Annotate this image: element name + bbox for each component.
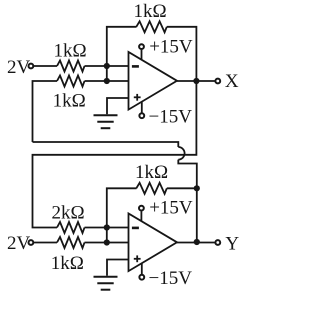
terminal: Y output bbox=[215, 240, 220, 245]
resistor 1kΩ feedback top bbox=[136, 21, 167, 32]
wire plus input to ground bbox=[107, 98, 129, 114]
node dot: top input junction upper bbox=[104, 63, 110, 69]
wire node vertical joining both input branches bbox=[106, 66, 108, 81]
wire -15V stem bbox=[141, 102, 143, 113]
svg-text:1kΩ: 1kΩ bbox=[51, 253, 84, 274]
terminal: -15V (bottom op-amp) bbox=[139, 275, 144, 280]
terminal: +15V (bottom op-amp) bbox=[139, 206, 144, 211]
resistor 2kΩ upper input branch bbox=[57, 222, 85, 233]
op-amp U2 plus sign bbox=[134, 258, 141, 260]
ground (top op-amp) bbox=[94, 115, 118, 128]
wire X node down to crossover bbox=[33, 81, 197, 228]
node dot: bottom input junction upper bbox=[104, 224, 110, 230]
terminal: +15V (top op-amp) bbox=[139, 44, 144, 49]
wire feedback right to output node bbox=[167, 27, 197, 81]
op-amp U2 triangle bbox=[129, 214, 178, 272]
node dot: Y output junction bbox=[194, 239, 200, 245]
svg-text:1kΩ: 1kΩ bbox=[53, 41, 86, 62]
svg-text:+15V: +15V bbox=[149, 36, 193, 57]
svg-text:2V: 2V bbox=[7, 233, 31, 254]
svg-text:2V: 2V bbox=[7, 57, 31, 78]
op-amp U2 minus sign bbox=[132, 227, 139, 230]
wire 2V terminal to resistor bbox=[34, 65, 57, 67]
wire plus input to ground bbox=[107, 260, 129, 276]
wire +15V stem bbox=[140, 211, 142, 221]
wire resistor to node (minus input line) bbox=[85, 65, 129, 67]
svg-text:1kΩ: 1kΩ bbox=[133, 1, 166, 22]
terminal: 2V input (top) bbox=[29, 64, 34, 69]
wire node vertical joining both input branches bbox=[106, 228, 108, 243]
svg-text:Y: Y bbox=[225, 233, 239, 254]
wire feedback left vertical bbox=[107, 27, 137, 66]
wire feedback right to Y vertical bbox=[167, 187, 197, 189]
node dot: bottom feedback junction bbox=[194, 185, 200, 191]
wire resistor to op-amp edge bbox=[85, 242, 129, 244]
terminal: X output bbox=[215, 79, 220, 84]
resistor 1kΩ lower input branch bbox=[57, 76, 85, 87]
wire output to Y terminal bbox=[177, 242, 215, 244]
svg-text:X: X bbox=[225, 71, 239, 92]
op-amp U1 minus sign bbox=[132, 65, 139, 68]
resistor 1kΩ lower input branch bbox=[57, 237, 85, 248]
node dot: bottom input junction lower bbox=[104, 239, 110, 245]
op-amp U1 triangle bbox=[129, 52, 178, 110]
wire resistor to op-amp edge bbox=[85, 80, 129, 82]
wire hop to Y output vertical bbox=[178, 160, 197, 242]
wire 2V terminal to resistor bbox=[34, 242, 57, 244]
op-amp U1 plus sign bbox=[134, 96, 141, 98]
wire -15V stem bbox=[141, 263, 143, 274]
node dot: top input junction lower bbox=[104, 78, 110, 84]
terminal: -15V (top op-amp) bbox=[139, 113, 144, 118]
svg-text:+15V: +15V bbox=[149, 197, 193, 218]
svg-text:−15V: −15V bbox=[149, 268, 193, 289]
resistor 1kΩ feedback bottom bbox=[136, 183, 167, 194]
wire +15V stem bbox=[141, 50, 143, 60]
node dot: X output junction bbox=[193, 78, 199, 84]
svg-text:2kΩ: 2kΩ bbox=[51, 203, 84, 224]
svg-text:−15V: −15V bbox=[149, 107, 193, 128]
wire Y-feedback horizontal run bbox=[33, 142, 179, 147]
terminal: 2V input (bottom) bbox=[29, 240, 34, 245]
ground (bottom op-amp) bbox=[94, 277, 118, 290]
resistor 1kΩ top input (upper branch) bbox=[57, 61, 85, 72]
wire lower branch left vertical from Y feedback bbox=[33, 81, 58, 142]
svg-text:1kΩ: 1kΩ bbox=[135, 162, 168, 183]
wire feedback left vertical bbox=[107, 188, 137, 227]
wire resistor to op-amp minus line bbox=[85, 227, 129, 229]
svg-text:1kΩ: 1kΩ bbox=[53, 91, 86, 112]
wire crossover hop arc bbox=[178, 147, 184, 160]
wire output to X terminal bbox=[177, 80, 215, 82]
